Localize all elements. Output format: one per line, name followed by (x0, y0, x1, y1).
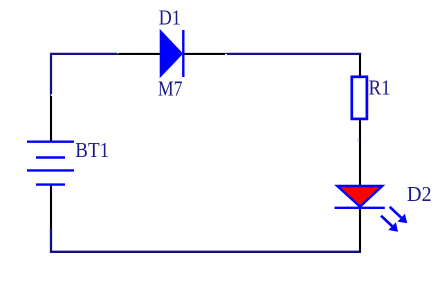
pin D1 anode (118, 53, 160, 55)
junction pin end D1 anode (117, 52, 119, 53)
battery BT1 plate 4 short (36, 183, 65, 185)
pin BT1 positive (50, 95, 52, 142)
wire bottom segment (51, 228, 361, 252)
wire top-left segment (51, 54, 118, 95)
pin R1 bottom (359, 119, 361, 141)
battery BT1 plate 2 short (36, 156, 65, 158)
svg-text:BT1: BT1 (75, 139, 109, 162)
LED D2 emission arrow 2 shaft (381, 216, 392, 226)
LED D2 triangle (337, 186, 382, 207)
svg-text:R1: R1 (369, 77, 391, 100)
LED D2 cathode bar (335, 207, 385, 209)
LED D2 emission arrow 1 head (398, 214, 408, 224)
svg-text:D2: D2 (407, 184, 432, 206)
diode D1 triangle (160, 30, 182, 76)
diode D1 cathode bar (182, 30, 184, 77)
pin BT1 negative (50, 185, 52, 228)
junction pin end D1 cathode (225, 54, 227, 56)
pin D2 anode (359, 141, 361, 186)
resistor R1 body (352, 77, 367, 119)
LED D2 emission arrow 1 shaft (390, 207, 402, 218)
battery BT1 plate 3 long (27, 169, 74, 171)
pin R1 top (359, 54, 361, 77)
svg-text:D1: D1 (159, 7, 181, 30)
LED D2 emission arrow 2 head (388, 222, 398, 232)
pin D1 cathode (184, 53, 226, 55)
junction pin end BT1 top (51, 94, 53, 96)
wire top-right segment (226, 53, 361, 55)
pin D2 cathode (359, 209, 361, 252)
svg-text:M7: M7 (158, 78, 183, 101)
battery BT1 plate 1 long (27, 140, 74, 142)
junction pin ends R1/D2 (357, 139, 359, 143)
